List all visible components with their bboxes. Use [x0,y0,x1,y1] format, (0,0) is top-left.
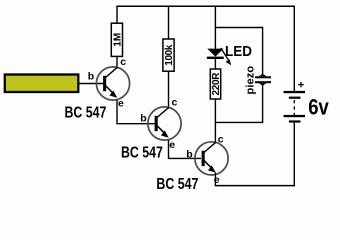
svg-text:100k: 100k [164,44,175,65]
svg-text:1M: 1M [112,33,123,47]
svg-text:c: c [172,97,178,109]
wire top supply rail [116,5,295,7]
svg-text:6v: 6v [308,95,329,120]
wire LED top drop [214,6,216,49]
svg-text:c: c [218,133,224,145]
LED light arrow [221,48,231,65]
wire Q1 emitter to Q2 base [117,100,155,124]
svg-text:BC 547: BC 547 [65,105,107,122]
wire piezo top branch [215,28,262,76]
svg-text:e: e [169,139,175,151]
wire 100k bottom to Q2 collector [168,71,170,108]
svg-text:b: b [88,71,94,83]
resistor R3 220R [210,69,222,99]
transistor Q1 BC547 [96,67,129,100]
svg-text:c: c [120,56,126,68]
wire 220R bottom to Q3 collector [214,99,216,143]
svg-text:LED: LED [225,43,252,60]
wire LED to 220R [214,59,216,69]
resistor R1 1M [111,23,123,56]
wire 1M bottom to Q1 collector [116,56,118,67]
svg-text:b: b [186,148,192,160]
wire 1M top drop [116,6,118,23]
touch plate electrode [5,75,79,93]
svg-text:BC 547: BC 547 [121,145,163,162]
wire 100k top drop [168,6,170,39]
transistor Q3 BC547 [195,142,228,175]
LED D1 [207,49,224,59]
wire piezo bottom branch [215,85,262,123]
battery B1 6v [284,91,306,123]
wire battery top drop [293,6,295,91]
transistor Q2 BC547 [148,107,181,140]
wire plate to Q1 base [79,83,104,85]
svg-text:220R: 220R [211,72,222,96]
wire Q3 emitter down [214,173,216,186]
svg-text:b: b [140,112,146,124]
wire battery bottom drop [293,123,295,186]
svg-text:e: e [118,98,124,110]
wire bottom return rail [215,185,295,187]
resistor R2 100k [163,39,175,71]
svg-text:piezo: piezo [244,66,256,95]
battery plus sign [298,82,303,87]
svg-text:BC 547: BC 547 [156,176,198,193]
piezo transducer [255,74,271,86]
wire Q2 emitter to Q3 base [169,140,202,158]
